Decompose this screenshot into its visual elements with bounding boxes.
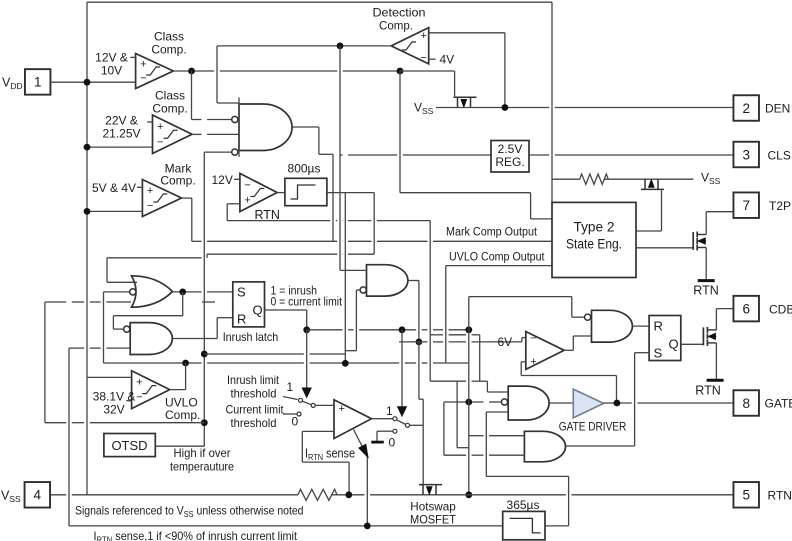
svg-text:State Eng.: State Eng.	[566, 237, 622, 253]
box CDB latch	[649, 316, 681, 361]
wire 365us output	[486, 412, 568, 526]
wire OTSD left loop	[45, 302, 215, 423]
box OTSD	[104, 434, 155, 457]
wire class1 line to DEN gate	[400, 71, 455, 96]
svg-text:+: +	[147, 185, 153, 197]
svg-text:CLS: CLS	[768, 149, 791, 163]
gate CDB set AND	[524, 431, 565, 462]
svg-text:−: −	[147, 200, 153, 212]
svg-text:1: 1	[287, 380, 294, 394]
wire UVLO minus stub	[126, 400, 131, 402]
gate NOR	[132, 276, 173, 307]
svg-text:High if over: High if over	[174, 446, 231, 460]
svg-text:0: 0	[389, 436, 396, 450]
gate driver NAND	[508, 386, 549, 420]
svg-text:4V: 4V	[440, 53, 455, 67]
svg-text:GATE DRIVER: GATE DRIVER	[559, 420, 627, 434]
wire Q to CDB NAND	[469, 297, 585, 330]
label IRTN note	[94, 529, 298, 541]
bubble class AND input2	[232, 116, 238, 122]
transistor DEN MOSFET	[454, 97, 477, 107]
gate class AND	[239, 98, 292, 158]
comparator 12V timer comp	[240, 173, 277, 211]
svg-text:1: 1	[386, 404, 393, 418]
pin 7 box	[733, 192, 759, 218]
wire class2 plus stub	[147, 121, 152, 123]
svg-text:+: +	[157, 121, 163, 133]
svg-text:+: +	[140, 59, 146, 71]
wire reg input line	[340, 154, 491, 156]
svg-text:32V: 32V	[103, 403, 124, 417]
svg-text:7: 7	[742, 198, 750, 213]
label CLS	[768, 149, 791, 163]
svg-text:12V: 12V	[212, 173, 233, 187]
svg-text:threshold: threshold	[231, 387, 277, 401]
label DEN	[765, 102, 790, 116]
svg-text:−: −	[136, 392, 142, 404]
wire driver NAND output	[549, 402, 573, 404]
box 2.5V REG	[491, 141, 529, 173]
label Vss (CLS)	[701, 171, 721, 187]
wire class1 output	[173, 70, 400, 72]
svg-text:2: 2	[742, 101, 750, 116]
wire class res line left	[552, 178, 580, 180]
label 1 (output switch)	[386, 404, 393, 418]
svg-text:0: 0	[292, 415, 299, 429]
svg-text:+: +	[530, 356, 536, 368]
wire pin1 to VDD bus	[51, 81, 136, 83]
wire VDD to class2 minus	[87, 146, 153, 148]
wire detection minus stub	[429, 58, 436, 60]
node OTSD riser junction2	[201, 419, 208, 426]
svg-text:−: −	[244, 179, 250, 191]
node sense resistor junction	[345, 491, 352, 498]
svg-text:RTN: RTN	[768, 489, 792, 503]
svg-text:Current limit: Current limit	[226, 403, 285, 417]
label IRTN sense	[305, 447, 355, 463]
comparator 6V comp	[526, 332, 564, 370]
svg-text:Comp.: Comp.	[152, 102, 187, 116]
wire class res line mid	[604, 178, 693, 180]
wire set AND input2	[444, 402, 525, 455]
svg-text:IRTN sense,1 if <90% of inrush: IRTN sense,1 if <90% of inrush current l…	[94, 529, 298, 541]
wire VDD to mark minus	[87, 210, 142, 212]
node detection output branch	[337, 43, 344, 50]
wire mark plus stub	[137, 186, 142, 188]
node VDD junction mark	[84, 208, 91, 215]
svg-text:OTSD: OTSD	[111, 438, 147, 453]
wire 12V comp output	[277, 192, 285, 194]
svg-text:5V & 4V: 5V & 4V	[92, 181, 136, 195]
wire UVLO output	[170, 363, 186, 390]
svg-text:MOSFET: MOSFET	[410, 513, 457, 527]
wire mark comp output	[182, 198, 192, 241]
resistor classification	[580, 174, 609, 184]
label 4V	[440, 53, 455, 67]
label Class Comp. (1)	[151, 30, 186, 57]
wire Q line to right	[307, 329, 469, 331]
gate inrush NAND	[130, 323, 172, 355]
node DEN junction	[502, 104, 509, 111]
wire CDB NAND output	[632, 325, 649, 327]
transistor CLS MOSFET	[641, 179, 664, 189]
wire DEN line	[436, 107, 734, 109]
wire OTSD to NAND3 bubble run	[204, 353, 345, 355]
pin 5 box	[733, 482, 759, 508]
pin 8 box	[733, 390, 759, 416]
svg-text:DEN: DEN	[765, 102, 790, 116]
label Detection Comp.	[373, 6, 426, 33]
wire 6V comp output	[564, 336, 591, 350]
wire Mark Comp Output line	[192, 240, 552, 242]
wire CLS FET gate	[636, 189, 662, 231]
wire T2P source to RTN	[705, 248, 707, 280]
svg-text:Inrush latch: Inrush latch	[223, 330, 279, 344]
svg-text:Hotswap: Hotswap	[410, 500, 456, 514]
switch output select	[393, 417, 410, 428]
svg-text:RTN: RTN	[693, 284, 718, 298]
svg-text:Comp.: Comp.	[151, 43, 186, 57]
node Q line CDB junction	[465, 326, 472, 333]
wire inrush NAND output to latch R	[172, 318, 232, 339]
wire 6V comp plus feed	[521, 362, 616, 403]
wire switch to hotswap gate	[409, 424, 423, 426]
node timer net junction	[342, 360, 349, 367]
wire 12V plus feedback	[227, 204, 430, 221]
label 1 = inrush	[271, 286, 318, 298]
svg-text:Mark Comp Output: Mark Comp Output	[446, 227, 538, 239]
node class1 line branch	[397, 68, 404, 75]
label 365us	[507, 498, 540, 512]
svg-text:Comp.: Comp.	[379, 19, 413, 33]
box Type 2 State Eng	[552, 202, 636, 277]
label VSS	[1, 488, 21, 504]
label UVLO Comp.	[165, 396, 200, 423]
wire CDB source to RTN	[715, 343, 717, 380]
wire mid NAND bubble feed	[356, 289, 360, 291]
wire CDB latch S input	[635, 353, 650, 446]
svg-text:6: 6	[742, 301, 750, 316]
label RTN (pin5)	[768, 489, 792, 503]
label 800us	[288, 162, 321, 176]
wire VDD bus vertical	[86, 2, 88, 495]
wire CDB latch Q to gate	[681, 343, 704, 345]
node CDB net RTN junction	[465, 491, 472, 498]
label signals note	[75, 504, 304, 520]
wire 12V minus stub	[234, 178, 240, 180]
pin 1 box	[25, 69, 51, 95]
wire class1 to AND bubble	[192, 71, 232, 120]
svg-text:+: +	[339, 403, 345, 415]
svg-text:CDB: CDB	[769, 303, 792, 317]
wire VDD top rail	[87, 1, 552, 3]
label 0 (output switch)	[389, 436, 396, 450]
wire UVLO plus feed	[87, 376, 132, 378]
wire set AND top input	[469, 435, 525, 437]
label Class Comp. (2)	[152, 89, 187, 116]
wire mid NAND output	[408, 281, 419, 342]
svg-text:+: +	[244, 195, 250, 207]
wire 800us output	[344, 193, 346, 364]
label 5V & 4V	[92, 181, 136, 195]
svg-text:R: R	[237, 312, 246, 327]
svg-text:22V &: 22V &	[105, 114, 138, 128]
label 0 (inrush switch)	[292, 415, 299, 429]
svg-text:365µs: 365µs	[507, 498, 540, 512]
wire inrush comp plus wire	[315, 404, 334, 406]
svg-text:Detection: Detection	[373, 6, 426, 20]
label 6V	[498, 335, 513, 349]
svg-text:temperauture: temperauture	[170, 460, 234, 474]
wire inrush switch arrow	[302, 330, 311, 397]
wire driver NAND bubble feed	[444, 401, 502, 403]
gate CDB NAND	[592, 310, 633, 342]
svg-text:Class: Class	[154, 30, 184, 44]
wire timer-NOR link	[345, 290, 356, 351]
bubble NOR input	[130, 289, 136, 295]
comparator class comp 1	[136, 54, 174, 89]
label 0 = current limit	[271, 297, 343, 309]
node UVLO net junction	[182, 360, 189, 367]
box inrush latch	[233, 282, 265, 327]
transistor CDB MOSFET	[703, 327, 716, 346]
wire latch Q output	[265, 310, 307, 330]
svg-text:6V: 6V	[498, 335, 513, 349]
svg-text:S: S	[237, 285, 246, 300]
svg-text:Type 2: Type 2	[574, 220, 615, 236]
wire state-engine power drop	[551, 2, 553, 203]
label 1 (inrush switch)	[287, 380, 294, 394]
node latch Q junction	[303, 326, 310, 333]
label Hotswap MOSFET	[410, 500, 457, 527]
svg-text:−: −	[157, 136, 163, 148]
node class1 output junction	[188, 68, 195, 75]
transistor hotswap MOSFET	[419, 485, 442, 495]
resistor sense	[298, 489, 337, 500]
label RTN (12V comp)	[255, 208, 280, 222]
svg-text:REG.: REG.	[495, 155, 524, 169]
comparator inrush comp	[334, 400, 372, 439]
node VDD junction class2	[84, 144, 91, 151]
wire timer feedback chain	[430, 221, 508, 448]
wire CDB net down	[468, 330, 470, 495]
wire CLS line	[529, 154, 734, 156]
pin 6 box	[733, 296, 759, 322]
svg-text:10V: 10V	[101, 64, 122, 78]
node driver NAND junction	[465, 399, 472, 406]
wire class AND output	[292, 127, 333, 241]
wire NOR top feed	[107, 254, 374, 282]
label Inrush latch	[223, 330, 279, 344]
comparator detection comp	[391, 28, 429, 65]
wire UVLO Comp Output line	[446, 266, 552, 363]
wire VSS rail	[50, 494, 733, 496]
svg-text:+: +	[136, 377, 142, 389]
svg-text:0 = current limit: 0 = current limit	[271, 297, 343, 309]
label Current limit threshold	[226, 403, 285, 431]
svg-text:Class: Class	[155, 89, 185, 103]
svg-text:38.1V &: 38.1V &	[93, 390, 136, 404]
wire sense arrow	[354, 430, 368, 526]
svg-text:Comp.: Comp.	[160, 174, 195, 188]
svg-text:Q: Q	[669, 337, 679, 352]
ground RTN (T2P)	[693, 281, 718, 298]
node OTSD riser junction1	[201, 351, 208, 358]
label 38.1V & 32V	[93, 390, 136, 417]
switch 0 tie-low	[371, 429, 397, 442]
buffer GATE DRIVER	[573, 389, 603, 418]
label CDB	[769, 303, 792, 317]
wire detection output	[217, 45, 391, 47]
bubble class AND input4	[232, 149, 238, 155]
transistor T2P MOSFET	[693, 232, 706, 251]
svg-text:S: S	[654, 346, 663, 361]
svg-text:Comp.: Comp.	[165, 408, 200, 422]
node sense junction	[364, 523, 371, 530]
wire NOR out down to NAND	[113, 292, 182, 329]
svg-text:−: −	[140, 73, 146, 85]
svg-text:2.5V: 2.5V	[498, 142, 523, 156]
gate mid NAND	[367, 265, 408, 296]
svg-text:GATE: GATE	[765, 397, 792, 411]
wire UVLO net horizontal	[104, 362, 469, 364]
wire class AND bubble4 feed	[204, 151, 231, 153]
wire driver output	[604, 402, 734, 404]
svg-text:R: R	[654, 319, 663, 334]
svg-text:Q: Q	[253, 303, 263, 318]
wire mid NAND input1	[340, 46, 367, 271]
label 12V & 10V	[95, 51, 128, 78]
wire NOR output to latch S	[173, 291, 233, 293]
comparator UVLO comp	[132, 371, 170, 409]
wire class2 output	[192, 133, 239, 135]
wire set AND output	[566, 445, 635, 447]
svg-text:RTN: RTN	[255, 208, 280, 222]
svg-text:+: +	[421, 30, 427, 42]
wire hotswap gate drop	[419, 342, 423, 484]
wire T2P gate line	[636, 247, 693, 249]
wire inrush NAND input2	[69, 347, 130, 349]
node NOR output junction	[179, 289, 186, 296]
label Vss (DEN)	[414, 101, 434, 117]
svg-text:threshold: threshold	[231, 416, 277, 430]
wire left rail	[68, 348, 70, 526]
comparator mark comp	[142, 180, 181, 217]
switch inrush select	[283, 397, 315, 417]
svg-text:−: −	[530, 333, 536, 345]
pin 3 box	[733, 142, 759, 168]
wire inrush comp output	[372, 418, 394, 420]
svg-text:1: 1	[34, 75, 42, 90]
wire CDB drain to pin6	[716, 309, 733, 330]
label Mark Comp Output	[446, 227, 538, 239]
node driver output junction	[614, 400, 621, 407]
wire detection out down to class AND	[217, 46, 239, 103]
bubble mid NAND input2	[360, 287, 366, 293]
svg-text:3: 3	[742, 147, 750, 162]
wire class result to state engine	[400, 71, 552, 219]
label UVLO Comp Output	[449, 252, 545, 264]
wire NOR bubble feed	[104, 292, 130, 363]
wire class1 plus stub	[130, 56, 135, 58]
label T2P	[769, 199, 791, 213]
svg-text:−: −	[421, 52, 427, 64]
svg-text:T2P: T2P	[769, 199, 791, 213]
wire 365us feed line	[69, 525, 503, 527]
wire inrush comp minus loop	[302, 431, 349, 494]
wire T2P drain to pin7	[706, 212, 733, 235]
box 800us timer	[285, 178, 327, 205]
svg-text:800µs: 800µs	[288, 162, 321, 176]
label GATE	[765, 397, 792, 411]
node VDD junction pin1	[84, 79, 91, 86]
label 12V	[212, 173, 233, 187]
label Mark Comp.	[160, 162, 195, 188]
svg-text:RTN: RTN	[695, 384, 720, 398]
node Q line arrow2 junction	[399, 326, 406, 333]
label Inrush limit threshold	[227, 373, 280, 401]
svg-text:8: 8	[742, 396, 750, 411]
pin 2 box	[733, 95, 759, 121]
label VDD	[2, 75, 23, 91]
label High if over temperature	[170, 446, 234, 474]
node hotswap gate net junction	[416, 339, 423, 346]
label 22V & 21.25V	[102, 114, 140, 141]
svg-text:12V &: 12V &	[95, 51, 128, 65]
comparator class comp 2	[153, 115, 193, 154]
wire detection plus feed	[429, 33, 505, 108]
bubble driver NAND input2	[501, 399, 507, 405]
svg-text:UVLO Comp Output: UVLO Comp Output	[449, 252, 545, 264]
pin 4 box	[25, 482, 51, 508]
label GATE DRIVER	[559, 420, 627, 434]
box 365us timer	[503, 511, 545, 539]
wire 6V minus line	[399, 338, 526, 342]
bubble inrush NAND input1	[124, 326, 130, 332]
bubble CDB NAND input1	[585, 314, 591, 320]
wire 800us to NOR feed	[327, 193, 374, 255]
svg-text:5: 5	[742, 488, 750, 503]
wire OTSD output	[155, 445, 204, 447]
svg-text:Inrush limit: Inrush limit	[227, 373, 280, 387]
wire current-limit switch arrow	[398, 330, 407, 416]
wire OTSD riser	[203, 152, 205, 446]
svg-text:21.25V: 21.25V	[102, 127, 140, 141]
ground RTN (CDB)	[695, 380, 723, 397]
svg-text:4: 4	[34, 488, 42, 503]
